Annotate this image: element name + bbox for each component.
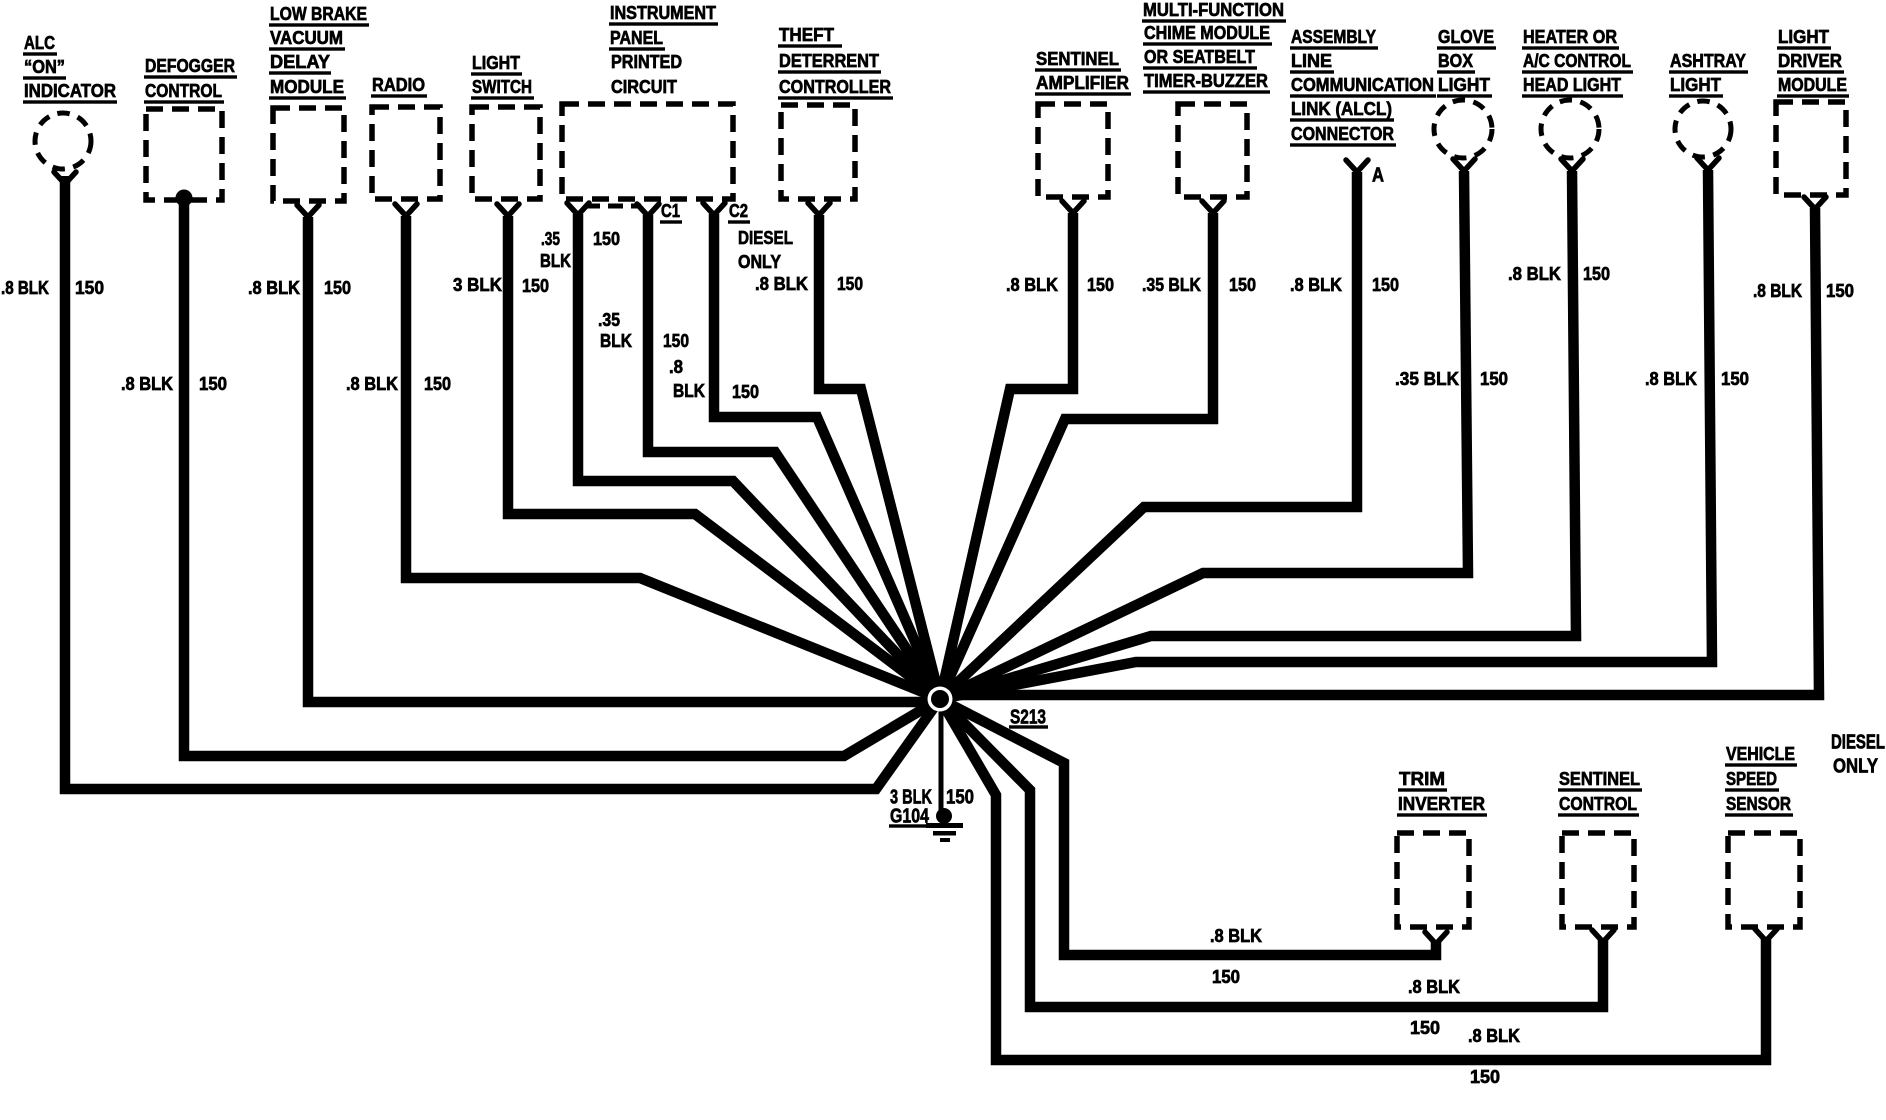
svg-text:MODULE: MODULE: [1778, 74, 1847, 95]
svg-text:RADIO: RADIO: [372, 74, 425, 95]
wire radio to S213: [406, 216, 940, 699]
svg-text:CONTROL: CONTROL: [145, 80, 222, 101]
connector at trim inverter: [1425, 932, 1447, 944]
svg-text:.8 BLK: .8 BLK: [755, 273, 809, 294]
svg-text:COMMUNICATION: COMMUNICATION: [1291, 74, 1434, 95]
svg-text:VACUUM: VACUUM: [270, 27, 343, 48]
wire S213 to ground G104: [939, 705, 944, 810]
svg-text:HEAD LIGHT: HEAD LIGHT: [1523, 74, 1622, 95]
label trim inverter: [1397, 768, 1487, 817]
svg-text:.8 BLK: .8 BLK: [1, 277, 50, 298]
svg-text:ONLY: ONLY: [1833, 754, 1878, 777]
label radio: [371, 74, 427, 98]
dashed stub below instrument panel box: [585, 204, 641, 209]
svg-text:.8 BLK: .8 BLK: [1210, 925, 1263, 946]
box instrument panel printed circuit: [562, 104, 733, 199]
label heater or A/C control head light: [1522, 26, 1633, 98]
svg-text:A/C CONTROL: A/C CONTROL: [1523, 50, 1631, 71]
gauge trim inverter wire: [1210, 925, 1263, 987]
splice S213 symbol: [928, 687, 953, 712]
svg-text:DEFOGGER: DEFOGGER: [145, 55, 235, 76]
svg-text:.8 BLK: .8 BLK: [1290, 274, 1343, 295]
connector at sentinel amplifier: [1062, 201, 1084, 213]
label ashtray light: [1669, 50, 1748, 98]
wire glove box light to S213: [940, 171, 1468, 699]
gauge sentinel amplifier: [1006, 274, 1114, 295]
svg-text:OR SEATBELT: OR SEATBELT: [1144, 46, 1256, 67]
box trim inverter: [1397, 833, 1469, 927]
svg-text:ASHTRAY: ASHTRAY: [1670, 50, 1747, 71]
gauge light switch: [453, 274, 549, 296]
svg-text:C1: C1: [661, 200, 680, 221]
connector at sentinel control: [1592, 930, 1614, 942]
svg-text:BLK: BLK: [600, 330, 633, 351]
connector at low brake module: [297, 205, 319, 217]
svg-text:SENTINEL: SENTINEL: [1559, 768, 1640, 789]
svg-text:150: 150: [522, 275, 549, 296]
wire instrument panel C2 to S213: [714, 214, 940, 699]
box radio: [372, 107, 440, 199]
svg-text:.8 BLK: .8 BLK: [121, 373, 174, 394]
svg-text:SENSOR: SENSOR: [1726, 793, 1791, 814]
svg-text:.8 BLK: .8 BLK: [248, 277, 301, 298]
svg-text:.8 BLK: .8 BLK: [1468, 1025, 1521, 1046]
gauge glove box: [1395, 368, 1508, 389]
svg-text:.35 BLK: .35 BLK: [1142, 274, 1202, 295]
svg-text:LIGHT: LIGHT: [1670, 74, 1722, 95]
connector at light switch: [497, 204, 519, 216]
gauge ALCL: [1290, 274, 1399, 295]
svg-text:THEFT: THEFT: [779, 24, 835, 45]
connector A at ALCL: [1346, 160, 1368, 172]
wire ALCL connector A to S213: [940, 172, 1357, 699]
gauge low brake: [248, 277, 351, 298]
svg-text:ALC: ALC: [24, 32, 55, 53]
wire instrument panel left to S213: [578, 214, 940, 699]
svg-text:BOX: BOX: [1438, 50, 1474, 71]
svg-text:INVERTER: INVERTER: [1398, 793, 1485, 814]
svg-text:BLK: BLK: [540, 250, 572, 271]
svg-text:150: 150: [1087, 274, 1114, 295]
connector at ALC indicator: [54, 172, 76, 184]
svg-text:DETERRENT: DETERRENT: [779, 50, 880, 71]
gauge ashtray: [1645, 368, 1749, 389]
connector at light driver module: [1804, 197, 1826, 209]
svg-text:PANEL: PANEL: [610, 27, 663, 48]
svg-text:3 BLK: 3 BLK: [890, 785, 932, 808]
wire light switch to S213: [508, 216, 940, 699]
svg-text:.8: .8: [669, 356, 683, 377]
label low brake vacuum delay module: [269, 3, 369, 100]
svg-text:INSTRUMENT: INSTRUMENT: [610, 2, 717, 23]
svg-text:150: 150: [1480, 368, 1508, 389]
connector at radio: [395, 204, 417, 216]
gauge light driver: [1753, 280, 1854, 301]
svg-text:HEATER OR: HEATER OR: [1523, 26, 1617, 47]
svg-text:MULTI-FUNCTION: MULTI-FUNCTION: [1143, 0, 1284, 20]
svg-text:LIGHT: LIGHT: [1438, 74, 1491, 95]
connector at vehicle speed sensor: [1755, 929, 1777, 941]
gauge ground leg: [890, 785, 974, 808]
label diesel only (right): [1831, 730, 1885, 777]
wire S213 to trim inverter: [940, 699, 1436, 955]
splice dot at defogger control box: [176, 190, 193, 207]
box sentinel control: [1562, 833, 1634, 927]
svg-text:PRINTED: PRINTED: [611, 51, 682, 72]
label C2: [728, 200, 750, 224]
svg-text:150: 150: [1721, 368, 1749, 389]
label vehicle speed sensor: [1725, 743, 1797, 817]
svg-text:150: 150: [1229, 274, 1256, 295]
wire theft deterrent to S213: [819, 215, 940, 699]
wire low brake vacuum delay to S213: [308, 217, 940, 702]
label C1: [660, 200, 682, 224]
box light switch: [472, 107, 540, 199]
box low brake vacuum delay module: [273, 108, 344, 201]
svg-text:SWITCH: SWITCH: [472, 76, 532, 97]
ground G104 symbol: [926, 808, 963, 842]
svg-text:A: A: [1372, 163, 1384, 186]
svg-text:150: 150: [1583, 263, 1610, 284]
svg-text:150: 150: [1212, 966, 1240, 987]
svg-text:DIESEL: DIESEL: [738, 227, 793, 248]
svg-text:150: 150: [199, 373, 227, 394]
connector at ashtray light: [1697, 158, 1719, 170]
gauge sentinel control wire: [1408, 976, 1461, 1038]
svg-text:150: 150: [946, 785, 974, 808]
svg-text:150: 150: [1470, 1066, 1500, 1087]
svg-text:“ON”: “ON”: [24, 56, 65, 77]
svg-text:SENTINEL: SENTINEL: [1036, 48, 1119, 69]
box chime module / seatbelt timer-buzzer: [1178, 104, 1247, 197]
connector IP left: [567, 203, 589, 215]
connector at glove box light: [1453, 159, 1475, 171]
wire ALC indicator to S213: [65, 176, 940, 789]
connector at chime module: [1202, 201, 1224, 213]
label multi-function chime module: [1142, 0, 1286, 94]
label light driver module: [1777, 26, 1849, 98]
svg-text:DIESEL: DIESEL: [1831, 730, 1885, 753]
gauge IP left: [540, 228, 620, 271]
lamp circle glove box light lamp: [1434, 100, 1492, 158]
svg-text:150: 150: [837, 273, 863, 294]
svg-text:150: 150: [324, 277, 351, 298]
svg-text:VEHICLE: VEHICLE: [1726, 743, 1795, 764]
svg-text:.8 BLK: .8 BLK: [346, 373, 399, 394]
svg-text:LOW BRAKE: LOW BRAKE: [270, 3, 367, 24]
label sentinel control: [1558, 768, 1642, 817]
svg-text:.8 BLK: .8 BLK: [1645, 368, 1698, 389]
svg-text:LINK (ALCL): LINK (ALCL): [1291, 98, 1392, 119]
svg-text:C2: C2: [729, 200, 748, 221]
svg-text:SPEED: SPEED: [1726, 768, 1777, 789]
wire sentinel amplifier to S213: [940, 213, 1073, 699]
connector at heater control light: [1561, 159, 1583, 171]
svg-text:DRIVER: DRIVER: [1778, 50, 1842, 71]
gauge radio: [346, 373, 451, 394]
lamp circle ashtray light lamp: [1675, 101, 1731, 157]
connector at theft deterrent: [808, 203, 830, 215]
svg-text:LIGHT: LIGHT: [1778, 26, 1830, 47]
svg-text:150: 150: [732, 381, 759, 402]
svg-text:INDICATOR: INDICATOR: [24, 80, 116, 101]
svg-text:DELAY: DELAY: [270, 51, 331, 72]
lamp circle ALC on indicator lamp: [35, 113, 91, 169]
label instrument panel printed circuit: [609, 2, 718, 97]
svg-text:.8 BLK: .8 BLK: [1006, 274, 1059, 295]
svg-text:.35 BLK: .35 BLK: [1395, 368, 1460, 389]
svg-text:CONTROLLER: CONTROLLER: [779, 76, 891, 97]
svg-text:TRIM: TRIM: [1399, 768, 1445, 789]
svg-text:TIMER-BUZZER: TIMER-BUZZER: [1144, 70, 1268, 91]
gauge speed sensor wire: [1468, 1025, 1521, 1087]
svg-text:150: 150: [75, 277, 104, 298]
label glove box light: [1437, 26, 1496, 98]
lamp circle heater A/C control lamp: [1541, 100, 1599, 158]
wire S213 to sentinel control: [940, 699, 1603, 1007]
svg-text:3 BLK: 3 BLK: [453, 274, 503, 295]
svg-text:150: 150: [1410, 1017, 1440, 1038]
svg-text:BLK: BLK: [673, 380, 706, 401]
label sentinel amplifier: [1035, 48, 1131, 96]
connector IP C2: [703, 203, 725, 215]
svg-text:150: 150: [1826, 280, 1854, 301]
wire instrument panel C1 to S213: [648, 215, 940, 699]
box sentinel amplifier: [1038, 104, 1108, 197]
gauge chime module: [1142, 274, 1256, 295]
label defogger control: [144, 55, 237, 104]
box theft deterrent controller: [781, 105, 855, 199]
svg-text:AMPLIFIER: AMPLIFIER: [1036, 72, 1129, 93]
svg-text:.8 BLK: .8 BLK: [1753, 280, 1803, 301]
svg-text:LINE: LINE: [1291, 50, 1332, 71]
svg-text:LIGHT: LIGHT: [472, 52, 521, 73]
gauge IP C2: [669, 356, 759, 402]
wire ashtray light to S213: [940, 170, 1712, 699]
svg-text:CHIME MODULE: CHIME MODULE: [1144, 22, 1270, 43]
wire chime module to S213: [940, 213, 1213, 699]
svg-text:.8 BLK: .8 BLK: [1508, 263, 1562, 284]
gauge heater control: [1508, 263, 1610, 284]
gauge theft deterrent: [755, 273, 863, 294]
label theft deterrent controller: [778, 24, 893, 100]
label ALC ON indicator: [23, 32, 117, 104]
gauge IP C1: [598, 309, 689, 351]
connector IP C1: [637, 204, 659, 216]
svg-text:150: 150: [663, 330, 689, 351]
box vehicle speed sensor: [1728, 833, 1800, 927]
gauge defogger: [121, 373, 227, 394]
box light driver module: [1776, 102, 1846, 195]
svg-text:GLOVE: GLOVE: [1438, 26, 1494, 47]
svg-text:.8 BLK: .8 BLK: [1408, 976, 1461, 997]
gauge ALC: [1, 277, 104, 298]
svg-text:.35: .35: [598, 309, 620, 330]
svg-text:ASSEMBLY: ASSEMBLY: [1291, 26, 1377, 47]
svg-text:CONNECTOR: CONNECTOR: [1291, 123, 1394, 144]
svg-text:ONLY: ONLY: [738, 251, 782, 272]
svg-text:150: 150: [1372, 274, 1399, 295]
label ALCL connector: [1290, 26, 1436, 147]
wire heater A/C control light to S213: [940, 171, 1576, 699]
label ground G104: [889, 804, 936, 827]
box defogger control: [146, 109, 222, 200]
svg-text:S213: S213: [1010, 705, 1046, 728]
label light switch: [471, 52, 534, 100]
svg-text:150: 150: [593, 228, 620, 249]
label diesel only (C2): [738, 227, 793, 272]
svg-text:CONTROL: CONTROL: [1559, 793, 1637, 814]
wire defogger control to S213: [184, 197, 940, 756]
svg-text:150: 150: [424, 373, 451, 394]
label splice S213: [1009, 705, 1048, 728]
wire S213 to vehicle speed sensor: [940, 699, 1766, 1060]
label terminal A: [1372, 163, 1384, 186]
svg-text:CIRCUIT: CIRCUIT: [611, 76, 678, 97]
svg-text:MODULE: MODULE: [270, 76, 344, 97]
svg-text:.35: .35: [541, 228, 560, 249]
wire light driver module to S213: [940, 208, 1819, 695]
